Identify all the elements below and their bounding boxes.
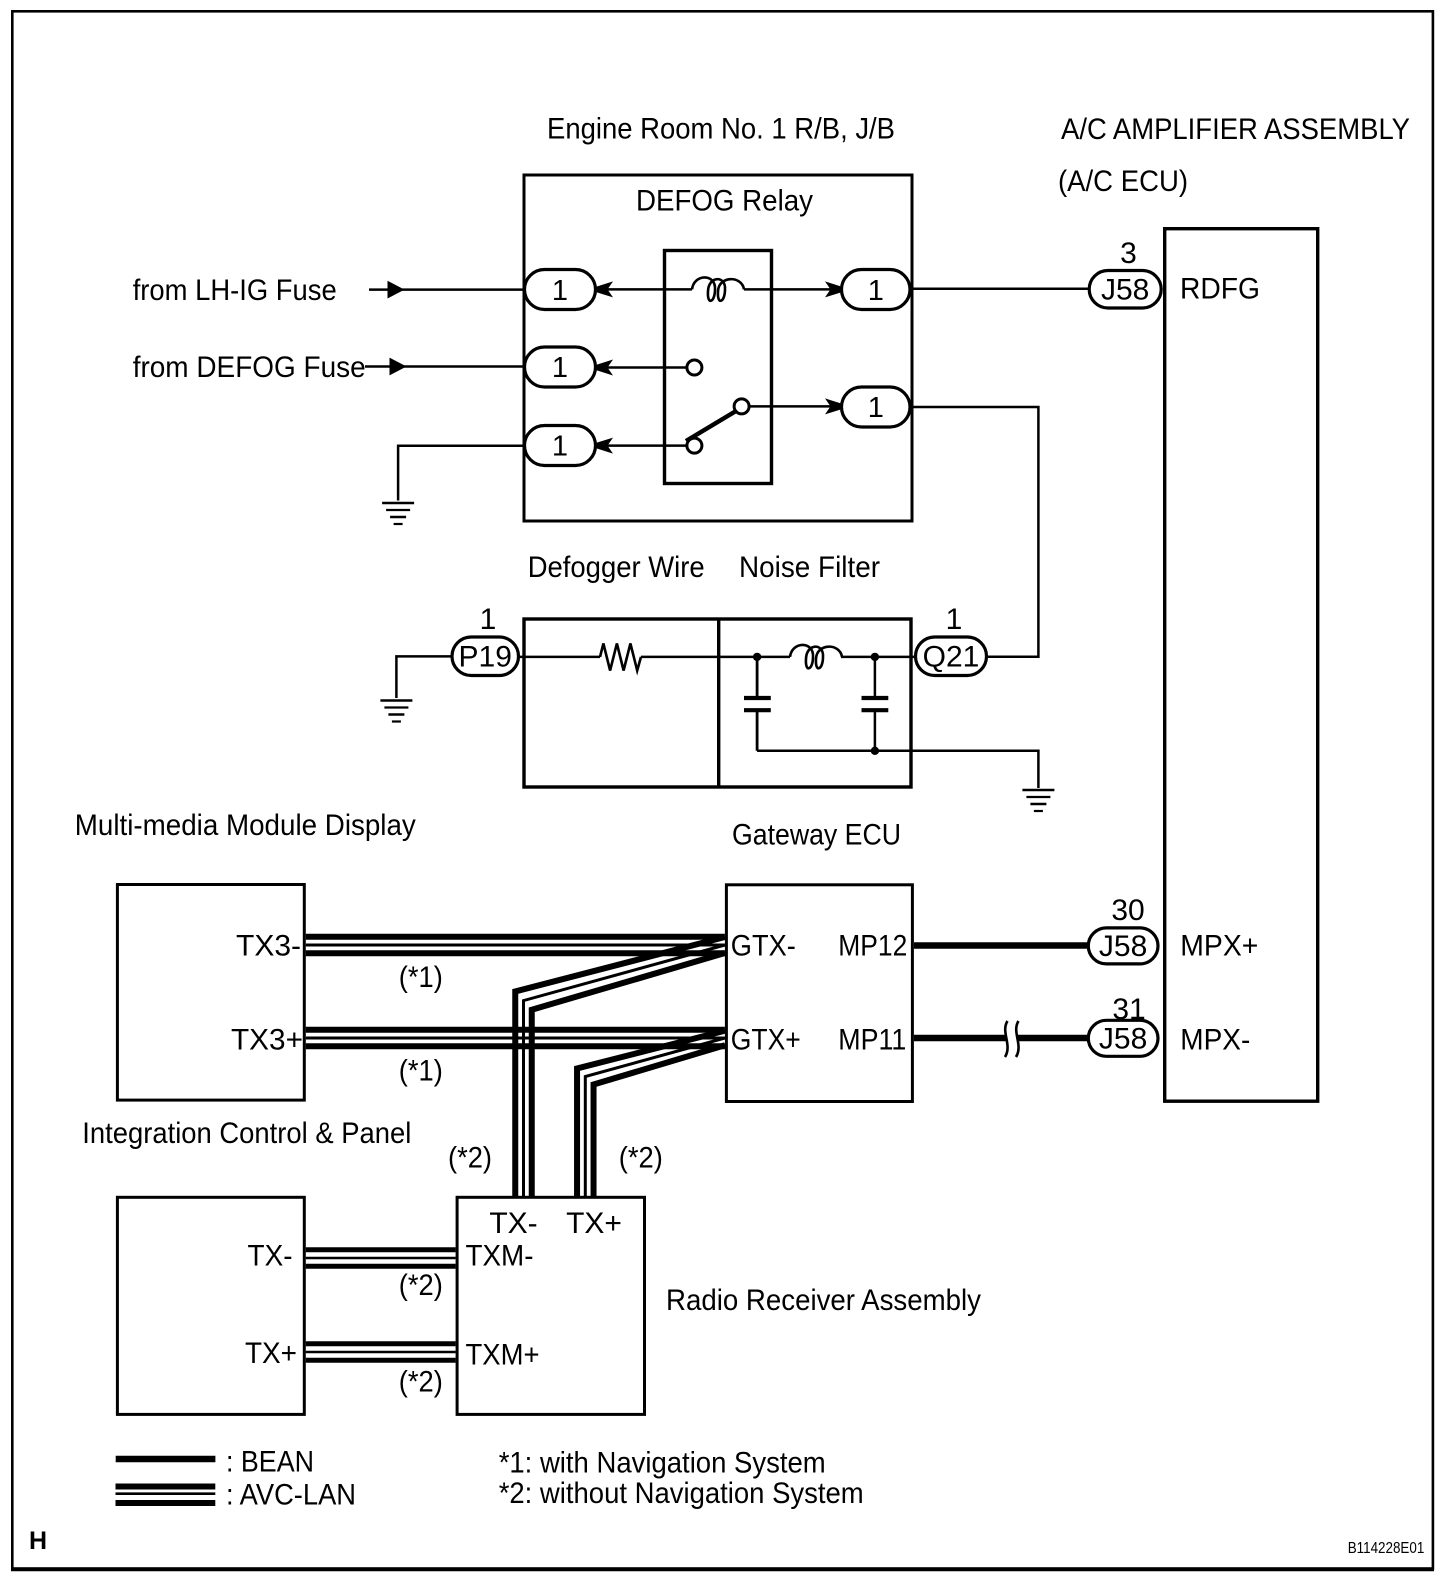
svg-text:Q21: Q21 <box>923 641 980 674</box>
svg-text:RDFG: RDFG <box>1180 273 1260 306</box>
svg-text:Defogger Wire: Defogger Wire <box>528 551 705 584</box>
svg-text:J58: J58 <box>1099 1023 1147 1056</box>
svg-text:1: 1 <box>552 352 568 384</box>
svg-text:TX3+: TX3+ <box>231 1024 303 1057</box>
svg-text:TX-: TX- <box>489 1207 537 1240</box>
svg-text:GTX-: GTX- <box>731 930 796 963</box>
svg-text:1: 1 <box>946 603 963 636</box>
svg-text:(*2): (*2) <box>619 1141 663 1174</box>
svg-text:TX+: TX+ <box>566 1207 622 1240</box>
svg-text:P19: P19 <box>459 640 512 673</box>
svg-text:30: 30 <box>1111 894 1144 927</box>
svg-text:(*1): (*1) <box>399 1055 443 1088</box>
svg-text:from DEFOG Fuse: from DEFOG Fuse <box>133 351 366 384</box>
svg-text:TX3-: TX3- <box>236 930 301 963</box>
svg-text:Gateway ECU: Gateway ECU <box>732 819 901 852</box>
svg-text:from LH-IG Fuse: from LH-IG Fuse <box>133 274 337 307</box>
svg-text:TXM+: TXM+ <box>466 1339 540 1372</box>
svg-text:B114228E01: B114228E01 <box>1348 1540 1425 1557</box>
svg-text:(A/C ECU): (A/C ECU) <box>1058 165 1188 198</box>
svg-text:GTX+: GTX+ <box>731 1024 801 1057</box>
svg-text:J58: J58 <box>1099 930 1147 963</box>
svg-text:3: 3 <box>1120 237 1137 270</box>
svg-text:1: 1 <box>480 603 497 636</box>
svg-text:A/C AMPLIFIER ASSEMBLY: A/C AMPLIFIER ASSEMBLY <box>1061 113 1410 146</box>
svg-text:TX-: TX- <box>248 1240 293 1273</box>
svg-text:Multi-media Module Display: Multi-media Module Display <box>75 809 416 842</box>
svg-text:1: 1 <box>868 392 884 424</box>
svg-text:TXM-: TXM- <box>466 1240 534 1273</box>
svg-text:Integration Control & Panel: Integration Control & Panel <box>82 1117 411 1150</box>
svg-text:: BEAN: : BEAN <box>226 1446 314 1479</box>
svg-text:(*1): (*1) <box>399 961 443 994</box>
svg-text:DEFOG Relay: DEFOG Relay <box>636 184 813 217</box>
svg-text:J58: J58 <box>1101 273 1149 306</box>
svg-text:1: 1 <box>552 431 568 463</box>
svg-text:H: H <box>29 1527 47 1555</box>
svg-text:(*2): (*2) <box>448 1141 492 1174</box>
svg-text:MPX+: MPX+ <box>1180 930 1258 963</box>
svg-text:(*2): (*2) <box>399 1366 443 1399</box>
svg-text:TX+: TX+ <box>245 1337 297 1370</box>
svg-text:MPX-: MPX- <box>1180 1024 1250 1057</box>
svg-text:31: 31 <box>1112 993 1145 1026</box>
svg-text:Engine Room No. 1 R/B, J/B: Engine Room No. 1 R/B, J/B <box>547 113 895 146</box>
svg-text:1: 1 <box>552 275 568 307</box>
svg-text:*1: with Navigation System: *1: with Navigation System <box>499 1447 826 1480</box>
svg-text:Noise Filter: Noise Filter <box>739 551 880 584</box>
svg-text:: AVC-LAN: : AVC-LAN <box>226 1479 356 1512</box>
svg-text:MP12: MP12 <box>838 930 907 963</box>
svg-text:*2: without Navigation System: *2: without Navigation System <box>499 1477 864 1510</box>
svg-text:MP11: MP11 <box>838 1024 906 1057</box>
svg-text:1: 1 <box>868 275 884 307</box>
svg-text:(*2): (*2) <box>399 1269 443 1302</box>
svg-text:Radio Receiver Assembly: Radio Receiver Assembly <box>666 1284 981 1317</box>
